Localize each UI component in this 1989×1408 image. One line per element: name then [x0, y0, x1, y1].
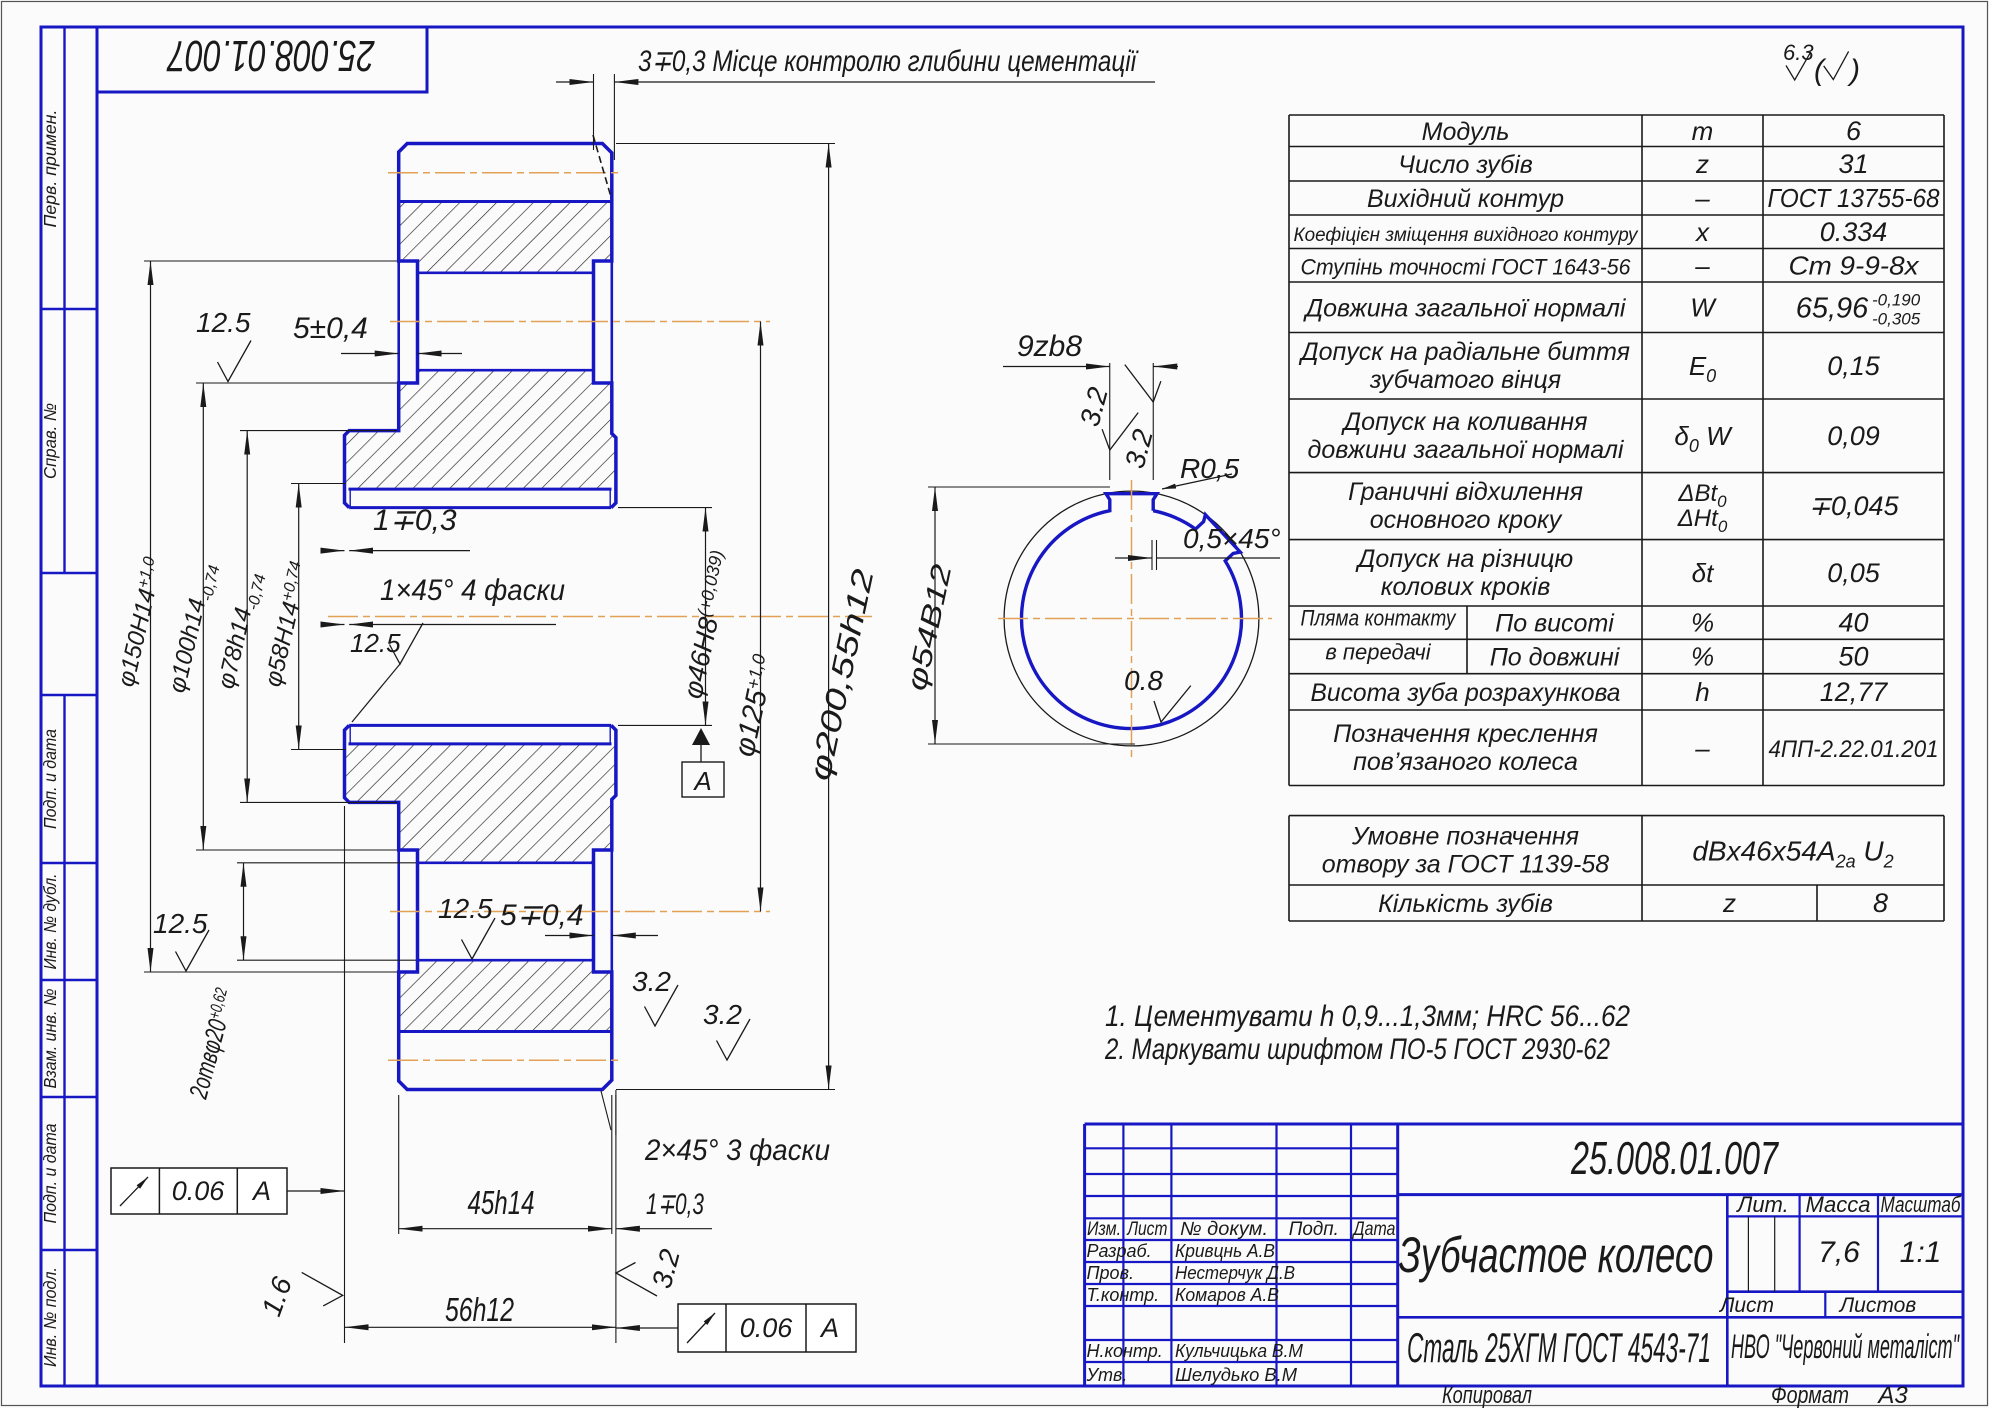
svg-text:δt: δt	[1692, 558, 1715, 588]
svg-text:h: h	[1695, 677, 1709, 707]
svg-text:2. Маркувати шрифтом ПО-5 ГОСТ: 2. Маркувати шрифтом ПО-5 ГОСТ 2930-62	[1104, 1033, 1610, 1066]
svg-text:0,5×45°: 0,5×45°	[1183, 523, 1281, 554]
svg-text:Позначення креслення: Позначення креслення	[1333, 720, 1598, 748]
svg-text:%: %	[1691, 642, 1714, 672]
svg-text:0.06: 0.06	[172, 1176, 226, 1206]
svg-text:A: A	[692, 766, 711, 796]
svg-text:%: %	[1691, 608, 1714, 638]
svg-text:12,77: 12,77	[1820, 677, 1889, 707]
svg-text:Ст 9-9-8х: Ст 9-9-8х	[1789, 250, 1920, 280]
svg-text:δ0 W: δ0 W	[1674, 421, 1733, 456]
svg-text:Подп. и дата: Подп. и дата	[40, 1123, 60, 1223]
svg-text:–: –	[1694, 250, 1710, 280]
svg-text:Число зубів: Число зубів	[1398, 151, 1533, 179]
svg-text:m: m	[1692, 116, 1714, 146]
svg-text:Допуск на коливання: Допуск на коливання	[1340, 408, 1587, 436]
svg-text:2×45° 3 фаски: 2×45° 3 фаски	[644, 1134, 830, 1167]
svg-text:45h14: 45h14	[468, 1184, 535, 1221]
svg-text:Утв.: Утв.	[1086, 1365, 1128, 1385]
svg-text:Лист: Лист	[1126, 1219, 1168, 1240]
svg-text:W: W	[1690, 292, 1717, 322]
svg-text:По довжині: По довжині	[1490, 644, 1621, 672]
svg-text:12.5: 12.5	[196, 307, 251, 338]
svg-text:1∓0,3: 1∓0,3	[646, 1188, 704, 1221]
svg-text:Справ. №: Справ. №	[40, 403, 60, 479]
svg-text:1. Цементувати h 0,9...1,3мм;: 1. Цементувати h 0,9...1,3мм; HRC 56...6…	[1105, 1000, 1630, 1033]
svg-text:0,15: 0,15	[1827, 351, 1881, 381]
svg-text:Комаров А.В: Комаров А.В	[1175, 1284, 1279, 1305]
svg-text:0.8: 0.8	[1124, 665, 1163, 696]
svg-text:Допуск на радіальне биття: Допуск на радіальне биття	[1298, 338, 1630, 366]
svg-text:Масса: Масса	[1805, 1192, 1870, 1217]
svg-text:Подп. и дата: Подп. и дата	[40, 729, 60, 829]
svg-text:56h12: 56h12	[445, 1291, 514, 1328]
svg-text:A: A	[819, 1313, 839, 1343]
svg-text:ГОСТ 13755-68: ГОСТ 13755-68	[1768, 183, 1940, 213]
svg-text:А3: А3	[1876, 1382, 1908, 1408]
svg-text:z: z	[1722, 888, 1736, 918]
svg-text:Вихідний контур: Вихідний контур	[1367, 185, 1564, 213]
svg-text:Взам. инв. №: Взам. инв. №	[40, 988, 60, 1088]
svg-text:Н.контр.: Н.контр.	[1087, 1341, 1163, 1361]
svg-text:Довжина загальної нормалі: Довжина загальної нормалі	[1302, 294, 1626, 322]
svg-text:-0,305: -0,305	[1872, 309, 1921, 328]
svg-text:z: z	[1695, 149, 1709, 179]
svg-text:Дата: Дата	[1352, 1219, 1396, 1240]
svg-text:dBx46x54A2а U2: dBx46x54A2а U2	[1692, 835, 1893, 871]
svg-text:Перв. примен.: Перв. примен.	[40, 109, 60, 227]
svg-text:Кульчицька В.М: Кульчицька В.М	[1175, 1340, 1304, 1361]
svg-text:Лист: Лист	[1718, 1294, 1774, 1317]
svg-text:основного кроку: основного кроку	[1370, 506, 1563, 534]
svg-text:8: 8	[1873, 888, 1888, 918]
svg-text:4ПП-2.22.01.201: 4ПП-2.22.01.201	[1769, 736, 1939, 763]
svg-text:9zb8: 9zb8	[1017, 330, 1082, 363]
svg-text:0,05: 0,05	[1827, 558, 1881, 588]
svg-text:Разраб.: Разраб.	[1087, 1241, 1152, 1261]
svg-text:31: 31	[1838, 149, 1868, 179]
svg-text:довжини загальної нормалі: довжини загальної нормалі	[1308, 436, 1625, 464]
svg-text:–: –	[1694, 183, 1710, 213]
svg-text:1∓0,3: 1∓0,3	[373, 504, 457, 537]
svg-text:Листов: Листов	[1838, 1294, 1917, 1317]
svg-text:0,09: 0,09	[1827, 421, 1880, 451]
svg-text:зубчатого вінця: зубчатого вінця	[1369, 366, 1561, 394]
svg-text:12.5: 12.5	[350, 628, 401, 658]
svg-text:–: –	[1694, 733, 1710, 763]
svg-text:Допуск на різницю: Допуск на різницю	[1355, 545, 1574, 573]
svg-text:1×45° 4 фаски: 1×45° 4 фаски	[380, 574, 565, 607]
svg-text:НВО "Червоний металіст": НВО "Червоний металіст"	[1731, 1328, 1960, 1366]
svg-text:Копировал: Копировал	[1442, 1382, 1532, 1408]
svg-text:65,96: 65,96	[1796, 292, 1869, 324]
svg-text:Инв. № подл.: Инв. № подл.	[40, 1267, 60, 1367]
svg-text:0.06: 0.06	[740, 1313, 794, 1343]
svg-text:Т.контр.: Т.контр.	[1087, 1285, 1160, 1305]
svg-text:6.3: 6.3	[1783, 40, 1814, 65]
svg-text:отвору за ГОСТ 1139-58: отвору за ГОСТ 1139-58	[1322, 850, 1609, 878]
svg-text:По висоті: По висоті	[1495, 610, 1615, 638]
svg-text:Коефіцієн зміщення вихідного к: Коефіцієн зміщення вихідного контуру	[1294, 225, 1639, 246]
svg-text:1:1: 1:1	[1900, 1236, 1942, 1269]
svg-text:40: 40	[1838, 608, 1868, 638]
svg-text:Сталь 25ХГМ ГОСТ 4543-71: Сталь 25ХГМ ГОСТ 4543-71	[1407, 1324, 1711, 1371]
svg-text:3∓0,3 Місце контролю глибини ц: 3∓0,3 Місце контролю глибини цементації	[638, 45, 1139, 78]
svg-text:Модуль: Модуль	[1422, 118, 1510, 146]
svg-text:№ докум.: № докум.	[1180, 1219, 1268, 1240]
svg-text:Изм.: Изм.	[1087, 1219, 1121, 1240]
svg-text:Подп.: Подп.	[1289, 1219, 1339, 1240]
svg-text:Кривцнь А.В: Кривцнь А.В	[1175, 1240, 1275, 1261]
svg-text:Масштаб: Масштаб	[1881, 1192, 1962, 1217]
svg-text:50: 50	[1838, 642, 1868, 672]
svg-text:Инв. № дубл.: Инв. № дубл.	[40, 874, 60, 970]
svg-text:Лит.: Лит.	[1735, 1192, 1789, 1217]
svg-text:3.2: 3.2	[703, 999, 742, 1030]
svg-text:Пров.: Пров.	[1087, 1263, 1134, 1283]
svg-text:Пляма контакту: Пляма контакту	[1301, 606, 1458, 631]
svg-text:-0,190: -0,190	[1872, 290, 1921, 309]
svg-text:5±0,4: 5±0,4	[293, 312, 368, 345]
svg-text:0.334: 0.334	[1820, 217, 1888, 247]
svg-text:Висота зуба розрахункова: Висота зуба розрахункова	[1311, 679, 1621, 707]
svg-text:3.2: 3.2	[632, 966, 671, 997]
svg-text:∓0,045: ∓0,045	[1808, 491, 1899, 521]
svg-text:A: A	[251, 1176, 271, 1206]
svg-text:25.008.01.007: 25.008.01.007	[166, 31, 375, 80]
svg-text:Шелудько В.М: Шелудько В.М	[1175, 1364, 1298, 1385]
svg-text:12.5: 12.5	[153, 908, 208, 939]
svg-text:Кількість зубів: Кількість зубів	[1378, 890, 1553, 918]
svg-text:Ступінь точності ГОСТ 1643-56: Ступінь точності ГОСТ 1643-56	[1301, 254, 1632, 279]
svg-text:x: x	[1694, 217, 1710, 247]
svg-text:Формат: Формат	[1771, 1382, 1849, 1408]
svg-text:7,6: 7,6	[1818, 1236, 1860, 1269]
svg-text:колових кроків: колових кроків	[1381, 573, 1551, 601]
svg-text:Зубчастое колесо: Зубчастое колесо	[1399, 1227, 1714, 1283]
svg-text:Нестерчук Д.В: Нестерчук Д.В	[1175, 1262, 1295, 1283]
svg-text:5∓0,4: 5∓0,4	[500, 899, 584, 932]
svg-text:Умовне позначення: Умовне позначення	[1351, 822, 1579, 850]
svg-text:пов’язаного колеса: пов’язаного колеса	[1353, 748, 1578, 776]
svg-text:в передачі: в передачі	[1325, 640, 1431, 665]
svg-text:6: 6	[1846, 116, 1862, 146]
svg-text:Граничні відхилення: Граничні відхилення	[1348, 478, 1583, 506]
svg-text:12.5: 12.5	[438, 893, 493, 924]
svg-text:25.008.01.007: 25.008.01.007	[1570, 1132, 1779, 1184]
